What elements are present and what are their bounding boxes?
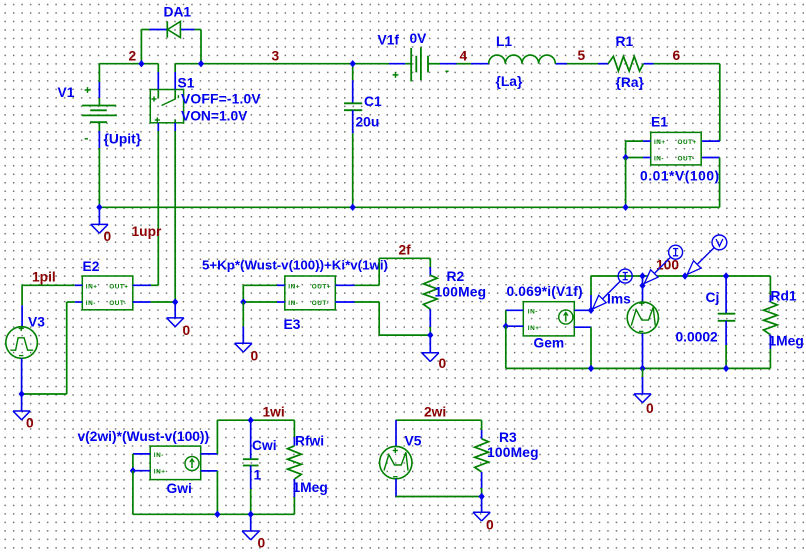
svg-text:0: 0 — [439, 356, 447, 371]
bottom rail junction at Cj — [723, 365, 729, 372]
Gwi source symbol — [185, 457, 199, 471]
svg-text:100Meg: 100Meg — [435, 285, 487, 300]
svg-text:1Meg: 1Meg — [769, 334, 804, 349]
junction at V probe tip — [682, 272, 688, 279]
svg-text:2wi: 2wi — [424, 405, 446, 420]
E1 IN- junction — [623, 154, 629, 161]
wire V5 ground stem — [481, 497, 483, 513]
wire E2 OUT- ground stem — [174, 302, 176, 318]
R2 bottom junction — [427, 331, 433, 338]
wire V5 bottom — [396, 479, 482, 497]
svg-text:Cj: Cj — [706, 290, 720, 305]
resistor R1 — [608, 56, 643, 71]
wire bottom rail of measuring subcircuit — [591, 367, 770, 369]
ground 0 below Gwi subcircuit — [242, 531, 259, 540]
wire Gwi OUT- down to bottom rail — [201, 471, 218, 514]
svg-text:IN+: IN+ — [528, 325, 540, 332]
svg-text:V3: V3 — [28, 315, 45, 330]
controlled source E1 — [651, 132, 702, 165]
svg-text:R1: R1 — [616, 34, 634, 49]
svg-text:0: 0 — [258, 536, 266, 551]
wire Rd1 bottom — [769, 335, 771, 369]
svg-text:IN+: IN+ — [288, 283, 300, 290]
wire R2 ground stem — [429, 335, 431, 353]
resistor Rfwi — [288, 446, 302, 479]
svg-text:2f: 2f — [399, 243, 412, 258]
wire Gwi IN- stub — [133, 453, 150, 455]
svg-text:IN+: IN+ — [654, 139, 666, 146]
wire E1 IN- stub — [626, 157, 651, 159]
wire measuring subcircuit ground stem — [642, 368, 644, 394]
svg-text:E2: E2 — [83, 259, 100, 274]
wire Cwi top stem — [250, 420, 252, 459]
resistor R3 — [475, 439, 489, 472]
wire E3 OUT- to R2 bottom — [335, 302, 430, 335]
svg-text:OUT+: OUT+ — [109, 283, 128, 290]
V1 plus mark — [85, 87, 91, 93]
wire main node3 segment from S1 to V1f battery — [175, 63, 411, 65]
wire S1 bottom pin 1 down to E2 OUT+ — [157, 123, 159, 285]
wire E2 OUT+ stub to S1 — [133, 284, 159, 286]
svg-text:R3: R3 — [499, 430, 517, 445]
Ims source minus mark — [639, 330, 643, 332]
svg-text:1pil: 1pil — [32, 270, 56, 285]
ground 0 below R2 — [422, 353, 439, 362]
node 100 junction at sine source — [639, 272, 645, 279]
resistor Rfwi top wire — [293, 420, 295, 446]
V3 plus mark — [19, 326, 24, 331]
svg-text:{Upit}: {Upit} — [104, 132, 142, 147]
wire E1 IN+ loop — [626, 141, 651, 157]
wire Gwi IN+ stub — [133, 470, 150, 472]
wire Gem OUT+ stub — [574, 309, 591, 311]
svg-text:OUT-: OUT- — [109, 300, 126, 307]
resistor Rd1 — [764, 302, 778, 335]
svg-text:Rd1: Rd1 — [771, 289, 797, 304]
wire Gwi subcircuit ground stem — [250, 514, 252, 531]
node 3 junction at C1 — [350, 60, 356, 67]
wire E2 OUT- stub to S1 — [133, 301, 175, 303]
battery V1f zero-volt current sense source — [411, 47, 428, 81]
controlled current source Gwi — [150, 446, 201, 480]
sine source V5 — [380, 446, 412, 478]
svg-text:0: 0 — [486, 518, 494, 533]
wire Gem IN down to bottom rail — [506, 326, 591, 368]
svg-text:OUT-: OUT- — [678, 156, 695, 163]
E1 OUT- pin stub — [702, 157, 720, 159]
controlled source E3 — [285, 276, 336, 310]
svg-text:0.01*V(100): 0.01*V(100) — [640, 169, 720, 184]
wire Cj bottom — [725, 321, 727, 369]
switch S1 — [150, 90, 183, 123]
svg-text:E1: E1 — [651, 115, 668, 130]
svg-text:0: 0 — [183, 323, 191, 338]
wire DA1 right drop to node 3 — [200, 30, 202, 64]
wire V3 bottom to junction — [21, 358, 23, 394]
wire Gem IN+ stub — [506, 325, 524, 327]
svg-text:1wi: 1wi — [263, 405, 285, 420]
wire DA1 left drop to node 2 — [140, 30, 142, 64]
V3 minus mark — [19, 355, 23, 357]
capacitor C1 — [344, 103, 362, 110]
svg-text:IN+: IN+ — [154, 469, 166, 476]
voltage probe at node 100 — [687, 235, 727, 274]
wire main node4 segment from V1f to L1 — [428, 63, 489, 65]
svg-text:1: 1 — [254, 468, 262, 483]
battery V1 — [82, 106, 117, 123]
node 3 junction at diode right — [198, 60, 204, 67]
capacitor Cj — [718, 314, 736, 321]
wire E1 OUT- down to bus — [719, 158, 721, 208]
E1 OUT+ pin stub — [702, 140, 720, 142]
wire V1 bottom to bus — [98, 122, 100, 207]
V5 minus mark — [393, 476, 397, 478]
svg-text:E3: E3 — [284, 317, 301, 332]
capacitor Cwi — [243, 459, 259, 465]
wire node 6 corner down to E1 OUT+ — [719, 64, 721, 141]
inductor L1 — [489, 55, 556, 64]
svg-text:1upr: 1upr — [132, 224, 163, 239]
wire S1 bottom pin 2 down to E2 OUT- — [174, 123, 176, 302]
svg-text:Cwi: Cwi — [252, 438, 277, 453]
wire main node2 segment from V1 corner to junction 2 — [99, 63, 158, 65]
svg-text:Gwi: Gwi — [167, 481, 192, 496]
wire Gem IN link — [505, 310, 507, 326]
svg-text:IN-: IN- — [654, 156, 664, 163]
svg-text:2: 2 — [129, 49, 137, 64]
wire top rail node 100 — [591, 275, 770, 277]
wire Gwi IN down to bottom rail — [133, 471, 295, 515]
controlled current source Gem — [523, 302, 574, 336]
wire ground-return bus — [99, 206, 719, 208]
ground 0 below E2 OUT- — [167, 318, 184, 327]
svg-text:4: 4 — [460, 48, 468, 63]
wire E3 IN ground stem — [242, 302, 244, 343]
svg-text:100Meg: 100Meg — [487, 445, 539, 460]
wire C1 bottom to bus — [352, 110, 354, 207]
svg-text:IN-: IN- — [288, 300, 298, 307]
wire main node5 segment from L1 to R1 — [555, 63, 608, 65]
svg-text:0: 0 — [26, 416, 34, 431]
svg-text:3: 3 — [272, 49, 280, 64]
wire Rfwi bottom — [293, 479, 295, 514]
diode DA1 — [141, 21, 201, 37]
wire Gem IN- stub — [506, 309, 524, 311]
svg-text:v(2wi)*(Wust-v(100)): v(2wi)*(Wust-v(100)) — [78, 429, 210, 444]
wire E3 IN+ corner — [243, 285, 284, 302]
wire S1 top pin 2 — [174, 64, 176, 90]
svg-text:{La}: {La} — [496, 74, 523, 89]
svg-text:Rfwi: Rfwi — [295, 434, 324, 449]
wire Gem OUT- stub and drop — [574, 327, 591, 368]
sine source top pin junction — [639, 282, 645, 289]
svg-text:OUT+: OUT+ — [312, 283, 331, 290]
ground 0 below V3 — [13, 411, 30, 420]
V1f minus mark — [445, 70, 448, 72]
bottom rail junction at Cwi — [248, 511, 254, 518]
svg-text:0.069*i(V1f): 0.069*i(V1f) — [507, 284, 583, 299]
svg-text:5+Kp*(Wust-v(100))+Ki*v(1wi): 5+Kp*(Wust-v(100))+Ki*v(1wi) — [202, 258, 388, 273]
bottom rail junction at Gem — [588, 365, 594, 372]
wire E2 IN+ to V3 top — [22, 285, 82, 327]
svg-text:0: 0 — [104, 229, 112, 244]
wire left riser to Gem OUT+ — [590, 276, 592, 310]
wire sine source bottom stem — [642, 333, 644, 368]
svg-text:IN-: IN- — [528, 308, 538, 315]
svg-text:VOFF=-1.0V: VOFF=-1.0V — [181, 92, 261, 107]
V1 minus mark — [85, 138, 88, 140]
svg-text:OUT+: OUT+ — [678, 139, 697, 146]
capacitor Cj top wire — [725, 276, 727, 314]
svg-text:VON=1.0V: VON=1.0V — [181, 109, 248, 124]
bottom rail junction at Gwi OUT- — [214, 511, 220, 518]
wire E3 OUT+ to R2 top — [335, 258, 430, 285]
svg-text:V5: V5 — [405, 434, 422, 449]
wire Cwi bottom stem — [250, 466, 252, 515]
svg-text:{Ra}: {Ra} — [616, 75, 645, 90]
bus junction at E1 — [623, 204, 629, 211]
svg-text:0V: 0V — [410, 31, 428, 46]
svg-text:IN-: IN- — [86, 300, 96, 307]
ground 0 below V1 — [91, 224, 108, 233]
svg-text:C1: C1 — [364, 94, 382, 109]
svg-text:0: 0 — [646, 401, 654, 416]
Gem IN junction — [503, 323, 509, 330]
svg-text:0.0002: 0.0002 — [676, 330, 719, 345]
node 100 junction at Cj — [723, 272, 729, 279]
bottom rail junction at sine source — [639, 365, 645, 372]
svg-text:5: 5 — [578, 48, 586, 63]
V1f plus mark — [393, 72, 399, 78]
bus junction at V1 — [96, 204, 102, 211]
wire V1 ground stem — [98, 207, 100, 224]
svg-text:S1: S1 — [178, 76, 195, 91]
wire V5 top to R3 top — [396, 420, 482, 446]
svg-text:OUT-: OUT- — [312, 300, 329, 307]
svg-text:V1f: V1f — [378, 33, 400, 48]
wire R3 bottom — [481, 472, 483, 497]
wire S1 top pin 1 — [157, 64, 159, 90]
current probe at node 100 — [644, 245, 682, 283]
pulse source V3 — [6, 327, 38, 359]
svg-text:1Meg: 1Meg — [293, 480, 328, 495]
Ims source plus mark — [639, 301, 644, 306]
svg-text:Gem: Gem — [534, 336, 565, 351]
ground 0 below E3 inputs — [235, 343, 252, 352]
wire R2 bottom — [429, 309, 431, 335]
wire main node6 segment from R1 to corner above E1 — [643, 63, 719, 65]
resistor R2 — [423, 275, 437, 309]
Gem source symbol — [559, 310, 573, 324]
svg-text:V1: V1 — [58, 85, 75, 100]
svg-text:DA1: DA1 — [164, 5, 192, 20]
wire V1 top riser from node 2 wire — [98, 64, 100, 106]
S1 plus mark top — [151, 96, 156, 101]
Gwi IN junction — [130, 467, 136, 474]
wire E1 IN- down to bus — [625, 158, 627, 208]
wire sine source top stem — [642, 276, 644, 302]
E3 IN junction — [240, 298, 246, 305]
svg-text:IN-: IN- — [154, 452, 164, 459]
node 2 junction — [138, 60, 144, 67]
svg-text:L1: L1 — [496, 34, 512, 49]
wire Gwi OUT+ up to node 1wi — [201, 420, 295, 454]
svg-text:6: 6 — [673, 48, 681, 63]
controlled source E2 — [82, 276, 133, 310]
wire Gwi IN link — [132, 454, 134, 471]
wire E3 IN- stub — [243, 301, 284, 303]
svg-text:R2: R2 — [447, 269, 465, 284]
wire C1 top stem from node 3 — [352, 64, 354, 104]
bus junction at C1 — [350, 204, 356, 211]
V3 ground junction — [19, 390, 25, 397]
svg-text:0: 0 — [251, 349, 259, 364]
R3 bottom junction — [479, 493, 485, 500]
S1 plus mark bottom — [155, 117, 160, 122]
ground 0 below V5 and R3 — [473, 512, 490, 521]
svg-text:IN+: IN+ — [86, 283, 98, 290]
E2 OUT- junction — [172, 298, 178, 305]
current probe on Gem output Ims — [593, 269, 633, 309]
resistor R3 top wire — [481, 420, 483, 439]
svg-text:20u: 20u — [356, 115, 380, 130]
sine current source Ims symbol — [627, 302, 658, 333]
node 1wi junction at Cwi — [248, 417, 254, 424]
svg-text:Ims: Ims — [607, 292, 631, 307]
wire E2 IN- return — [22, 302, 83, 394]
Gem OUT junction — [588, 307, 594, 314]
ground 0 below measuring subcircuit — [634, 394, 651, 403]
wire V3 ground stem — [21, 394, 23, 411]
resistor Rd1 top wire — [769, 276, 771, 302]
V5 plus mark — [393, 448, 398, 453]
